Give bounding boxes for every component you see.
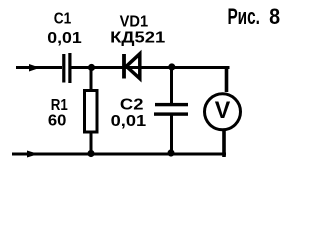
- voltmeter U1: [205, 94, 241, 130]
- wire bottom: [12, 153, 226, 156]
- wire R1 branch bottom: [90, 132, 93, 155]
- svg-text:R1: R1: [51, 97, 68, 114]
- resistor R1: [85, 91, 98, 133]
- wire R1 branch top: [90, 66, 93, 91]
- capacitor C2: [154, 103, 188, 116]
- node B junction diode/C2: [168, 63, 175, 70]
- capacitor C1: [62, 53, 71, 83]
- svg-text:Рис.: Рис.: [227, 4, 260, 29]
- svg-text:VD1: VD1: [120, 14, 149, 31]
- svg-text:0,01: 0,01: [47, 30, 82, 47]
- svg-text:C2: C2: [120, 97, 144, 114]
- wire C2 branch bottom: [170, 114, 173, 154]
- wire input arrow top: [29, 64, 40, 72]
- svg-text:8: 8: [269, 4, 280, 29]
- wire top left segment: [16, 66, 62, 69]
- wire input arrow bottom: [27, 151, 39, 158]
- node R1 bottom junction: [87, 150, 94, 157]
- diode VD1: [122, 54, 140, 79]
- wire C2 branch top: [170, 66, 173, 104]
- svg-text:КД521: КД521: [110, 30, 165, 47]
- wire voltmeter bottom stub: [222, 130, 226, 157]
- wire top main segment: [72, 66, 230, 69]
- node A junction C1/R1: [88, 64, 95, 71]
- svg-text:C1: C1: [54, 11, 72, 28]
- node C2 bottom junction: [167, 149, 174, 156]
- svg-text:60: 60: [48, 113, 67, 130]
- svg-text:V: V: [215, 97, 231, 124]
- svg-text:0,01: 0,01: [111, 113, 147, 130]
- wire voltmeter top stub: [225, 66, 229, 92]
